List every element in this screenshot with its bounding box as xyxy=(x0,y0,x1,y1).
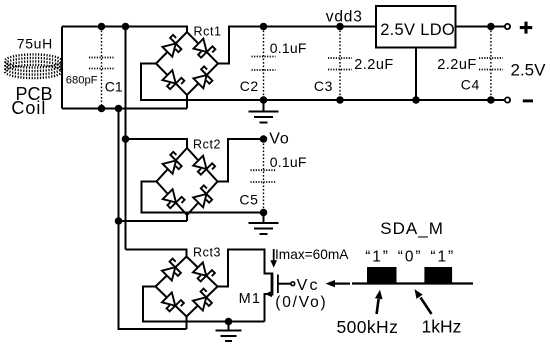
junction C4 top xyxy=(487,23,495,31)
diode Rct2 upper-left xyxy=(162,152,185,175)
svg-text:vdd3: vdd3 xyxy=(326,8,363,25)
arrow Imax current xyxy=(273,249,275,262)
svg-text:2.2uF: 2.2uF xyxy=(437,57,477,73)
junction Rct2 AC top branch xyxy=(122,135,130,143)
waveform pulse 2 xyxy=(424,267,452,283)
svg-text:Imax=60mA: Imax=60mA xyxy=(275,247,349,262)
junction C1 bottom xyxy=(98,105,106,113)
wire M1 gate lead xyxy=(278,283,291,285)
arrow to Vc from waveform xyxy=(335,283,350,285)
inductor L1 PCB coil xyxy=(5,54,62,78)
svg-text:Vc: Vc xyxy=(297,277,320,294)
svg-text:500kHz: 500kHz xyxy=(337,317,399,337)
bridge rectifier Rct1 xyxy=(156,32,218,95)
minus sign xyxy=(523,99,533,102)
junction Rct2 AC bottom branch xyxy=(115,217,123,225)
svg-text:C1: C1 xyxy=(105,78,123,94)
svg-text:“1”: “1” xyxy=(365,248,390,265)
wire coil bottom xyxy=(62,108,187,110)
waveform pulse 1 xyxy=(367,267,397,283)
wire M1 source lead xyxy=(265,294,271,322)
capacitor C4 2.2uF xyxy=(479,27,503,99)
wire net top (line B) vertical xyxy=(125,27,127,250)
wire Rct3 DC+ to M1 drain xyxy=(218,250,271,287)
diode Rct3 lower-right xyxy=(192,289,215,312)
diode Rct3 upper-right xyxy=(192,262,215,285)
svg-text:680pF: 680pF xyxy=(66,75,98,87)
svg-text:75uH: 75uH xyxy=(17,36,53,52)
terminal Vc circle xyxy=(291,282,295,286)
diode Rct2 upper-right xyxy=(192,155,215,178)
svg-text:0.1uF: 0.1uF xyxy=(270,154,307,170)
svg-text:(0/Vo): (0/Vo) xyxy=(275,294,327,311)
diode Rct3 lower-left xyxy=(161,292,184,315)
diode Rct1 lower-right xyxy=(193,66,216,89)
wire Rct2 bottom feed xyxy=(119,215,188,221)
wire top-left rail (coil top to Rct1 top corner) xyxy=(62,27,187,33)
transistor M1 gate bar xyxy=(277,275,279,294)
diode Rct1 upper-right xyxy=(193,38,216,61)
diode Rct3 upper-left xyxy=(161,259,184,282)
svg-text:Vo: Vo xyxy=(269,130,289,147)
diode Rct1 upper-left xyxy=(162,35,185,58)
wire Rct2 DC- wrap to ground xyxy=(142,182,264,213)
junction net-bottom tap xyxy=(115,105,123,113)
svg-text:Rct1: Rct1 xyxy=(194,25,222,39)
diode Rct2 lower-right xyxy=(192,185,215,208)
junction C1 top xyxy=(98,23,106,31)
junction C3 bottom xyxy=(336,96,344,104)
regulator U1 2.5V LDO box xyxy=(376,6,456,48)
svg-text:“1”: “1” xyxy=(430,248,455,265)
junction LDO ground xyxy=(412,96,420,104)
svg-text:M1: M1 xyxy=(239,291,262,307)
svg-text:Rct2: Rct2 xyxy=(193,137,221,151)
diode Rct2 lower-left xyxy=(162,188,185,211)
bridge rectifier Rct3 xyxy=(156,257,218,317)
capacitor C2 0.1uF xyxy=(252,27,276,99)
capacitor C1 680pF xyxy=(89,27,115,108)
wire Rct1 DC+ to top rail xyxy=(218,27,376,64)
svg-text:C4: C4 xyxy=(461,77,480,93)
wire Rct3 top feed xyxy=(126,250,187,257)
wire coil left side xyxy=(61,27,63,109)
capacitor C3 2.2uF xyxy=(328,27,352,99)
junction Vo node xyxy=(260,135,268,143)
wire LDO output xyxy=(456,26,505,28)
bridge rectifier Rct2 xyxy=(157,148,218,215)
svg-text:C3: C3 xyxy=(314,78,333,94)
svg-text:2.2uF: 2.2uF xyxy=(354,57,394,73)
junction C2 bottom / ground rail xyxy=(260,96,268,104)
svg-text:2.5V: 2.5V xyxy=(511,61,547,80)
junction M1 source ground xyxy=(225,318,233,326)
terminal plus circle xyxy=(505,24,510,29)
ground below C5 xyxy=(263,213,265,224)
svg-text:C5: C5 xyxy=(239,191,258,207)
junction C2 top / vdd3 rail xyxy=(260,23,268,31)
wire LDO ground stub xyxy=(415,48,417,101)
svg-text:Rct3: Rct3 xyxy=(193,245,221,259)
wire Rct2 top feed xyxy=(126,139,188,148)
svg-text:0.1uF: 0.1uF xyxy=(270,40,307,56)
svg-text:2.5V LDO: 2.5V LDO xyxy=(380,21,455,39)
wire Rct1 AC bottom stub xyxy=(186,95,188,109)
wire Rct2 DC+ to Vo xyxy=(218,139,264,182)
junction C5 bottom xyxy=(260,209,268,217)
svg-text:SDA_M: SDA_M xyxy=(380,219,444,238)
arrow 1kHz xyxy=(421,298,432,315)
terminal minus circle xyxy=(505,97,510,102)
junction net-top tap xyxy=(122,23,130,31)
plus sign xyxy=(520,22,532,34)
ground below C2 xyxy=(263,100,265,112)
svg-text:Coil: Coil xyxy=(11,98,46,118)
junction vdd3 node xyxy=(336,23,344,31)
wire Rct3 bottom stub xyxy=(186,317,188,330)
diode Rct1 lower-left xyxy=(162,69,185,92)
transistor M1 channel bar xyxy=(271,273,274,296)
arrow 500kHz xyxy=(377,299,379,314)
svg-text:1kHz: 1kHz xyxy=(422,317,462,337)
ground below M1 xyxy=(228,322,230,331)
capacitor C5 0.1uF xyxy=(251,140,276,212)
wire Rct3 DC- wrap to M1 source rail xyxy=(143,287,265,322)
wire net bottom (line A) vertical xyxy=(119,109,187,330)
svg-text:C2: C2 xyxy=(240,78,259,94)
svg-text:“0”: “0” xyxy=(398,248,423,265)
waveform baseline xyxy=(352,282,473,284)
transistor M1 source arrow xyxy=(265,291,272,297)
wire Rct1 DC- wrap and ground rail xyxy=(141,64,504,101)
junction C4 bottom xyxy=(487,96,495,104)
